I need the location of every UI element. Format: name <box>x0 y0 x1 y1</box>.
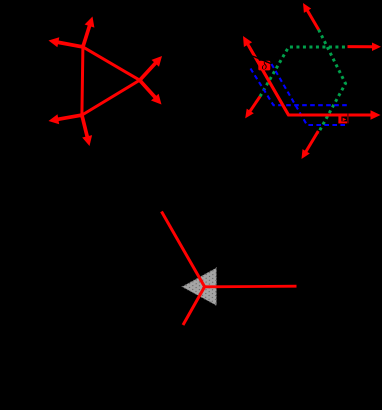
red path arrowhead up-left <box>247 43 289 115</box>
arrow from right vertex down-right <box>140 80 157 98</box>
red triangle (top-left trimer) <box>82 47 140 115</box>
arrow from top vertex up-right <box>83 24 90 47</box>
red path arrowhead right <box>289 114 373 117</box>
domain wall line right <box>205 285 297 288</box>
red box around E label <box>338 116 341 123</box>
red patch behind delta label <box>258 61 270 71</box>
arrow from top vertex left <box>56 42 83 47</box>
red arrow down-left (end of green path 1) <box>249 97 260 113</box>
blue dashed path 2 <box>272 64 348 125</box>
red arrow up-left (end of green path 2) <box>307 9 319 30</box>
red arrow right (end of green path 1) <box>348 45 375 48</box>
domain wall line up-left <box>162 212 205 287</box>
red arrow down-left (end of green path 2) <box>305 131 318 153</box>
triangle dot texture <box>182 268 216 306</box>
arrow from bottom vertex left <box>56 115 82 120</box>
domain wall line down-left <box>183 287 205 325</box>
red solid bent path shaft <box>249 47 372 116</box>
dark red right edge of E box <box>347 113 349 123</box>
triangle dotted edges <box>182 268 216 306</box>
green dotted path 2 (V shape) <box>318 30 346 134</box>
arrow from right vertex up-right <box>140 62 157 80</box>
arrow from bottom vertex down <box>82 115 88 138</box>
green dotted path 1 (bent) <box>260 47 348 97</box>
black line crossing red shaft <box>252 56 271 64</box>
small red arrowhead inside E box <box>343 118 347 122</box>
blue dashed path 1 <box>251 69 351 106</box>
